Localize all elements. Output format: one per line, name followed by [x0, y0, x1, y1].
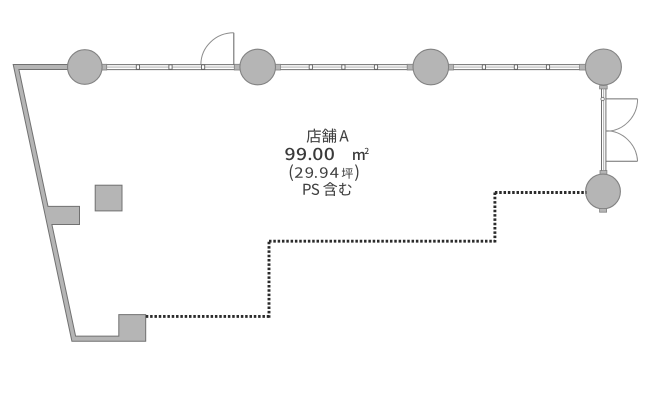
- entrance door leaf (top wall): [233, 33, 235, 65]
- label line 2: 99.00 m2: [285, 148, 368, 161]
- dotted boundary segment middle horizontal: [269, 240, 495, 243]
- entrance door swing arc: [201, 33, 234, 65]
- round column top-right: [585, 49, 621, 85]
- right upper door leaf: [606, 98, 638, 100]
- exterior wall: top wall, slanted left wall, wall tab, bottom wall and PS block (merged outline): [13, 65, 146, 342]
- right upper door swing arc: [606, 99, 638, 131]
- dotted boundary segment top horizontal to column: [495, 191, 587, 194]
- right window band glazing lines: [602, 89, 606, 171]
- top window band glazing lines: [86, 65, 586, 70]
- label line 4: PS 含む: [303, 182, 351, 196]
- stub below lower-right column: [600, 209, 607, 213]
- right lower door swing arc: [606, 131, 638, 161]
- round column top second: [240, 49, 276, 85]
- round column top-left: [68, 50, 103, 85]
- right wall stub under top-right column: [600, 86, 608, 89]
- label line 1: 店舗 A: [307, 129, 349, 143]
- right wall stub above lower-right column: [600, 171, 607, 175]
- dotted boundary segment vertical step right: [493, 191, 496, 242]
- free-standing square column block: [95, 185, 122, 211]
- round column top third: [413, 49, 449, 85]
- round column lower-right: [586, 174, 621, 209]
- right lower door leaf: [606, 160, 638, 162]
- label line 3: (29.94 tsubo): [290, 164, 359, 181]
- window mullions: [136, 65, 139, 70]
- window stub connectors at columns: [101, 64, 107, 70]
- dotted boundary segment vertical step left: [268, 240, 271, 318]
- right door hinge dot: [601, 97, 604, 100]
- dotted boundary segment bottom horizontal: [146, 315, 269, 318]
